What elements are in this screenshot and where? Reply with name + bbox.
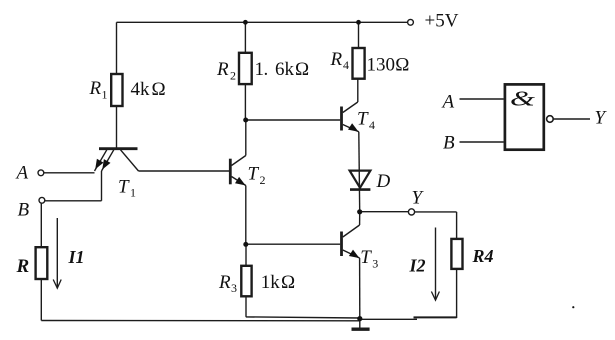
svg-text:130: 130 <box>367 55 396 76</box>
svg-text:2: 2 <box>260 173 266 187</box>
svg-text:D: D <box>376 171 391 192</box>
svg-text:T: T <box>360 247 372 268</box>
svg-text:Ω: Ω <box>281 272 295 293</box>
svg-text:R: R <box>330 49 343 70</box>
svg-text:R: R <box>16 256 30 277</box>
svg-text:1: 1 <box>130 186 136 200</box>
svg-text:R: R <box>89 78 102 99</box>
svg-text:I1: I1 <box>68 247 85 267</box>
svg-text:&: & <box>510 87 536 111</box>
svg-text:1k: 1k <box>261 272 281 293</box>
svg-text:4k: 4k <box>131 79 151 100</box>
svg-text:T: T <box>118 177 130 198</box>
svg-text:B: B <box>18 200 30 221</box>
svg-text:4: 4 <box>369 118 375 132</box>
svg-text:Ω: Ω <box>152 79 166 100</box>
svg-text:R: R <box>216 59 229 80</box>
svg-text:Ω: Ω <box>295 59 309 80</box>
svg-text:B: B <box>443 133 455 154</box>
svg-text:R: R <box>218 272 231 293</box>
svg-text:6k: 6k <box>275 59 295 80</box>
svg-text:A: A <box>15 163 29 184</box>
svg-text:.: . <box>264 59 269 80</box>
svg-text:2: 2 <box>230 69 236 83</box>
svg-text:A: A <box>441 92 455 113</box>
svg-text:R4: R4 <box>472 246 494 266</box>
svg-text:4: 4 <box>343 58 349 72</box>
svg-text:I2: I2 <box>409 256 426 276</box>
svg-text:+5V: +5V <box>425 11 459 32</box>
svg-text:T: T <box>357 108 369 129</box>
svg-text:3: 3 <box>231 281 237 295</box>
svg-text:Ω: Ω <box>395 55 409 76</box>
svg-text:T: T <box>248 164 260 185</box>
svg-text:1: 1 <box>102 88 108 102</box>
svg-text:3: 3 <box>372 257 378 271</box>
